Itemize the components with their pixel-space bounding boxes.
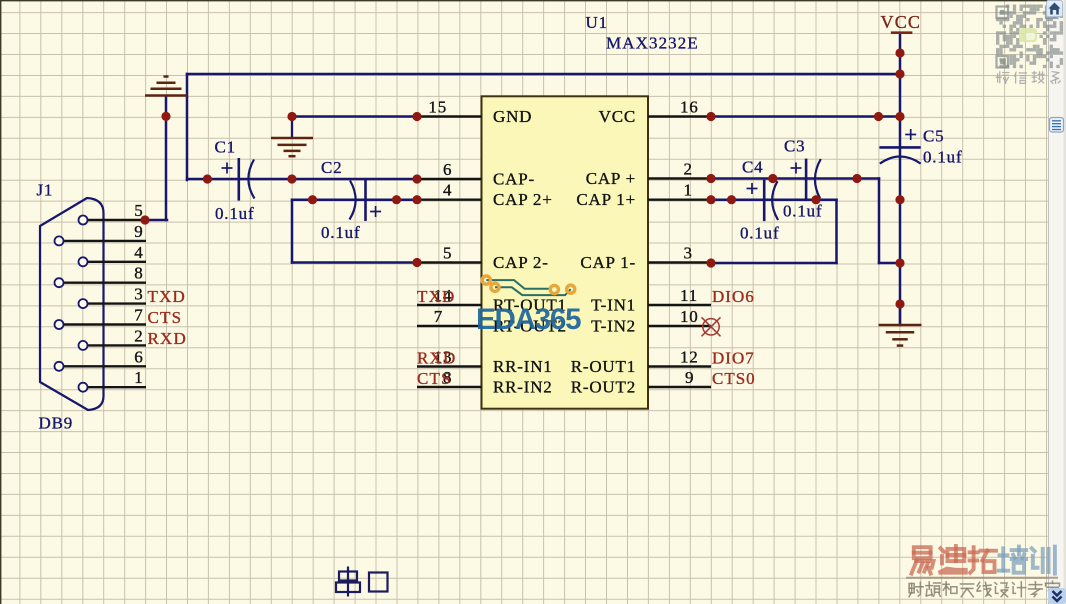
svg-text:EDA365: EDA365 bbox=[476, 303, 581, 336]
svg-text:0.1uf: 0.1uf bbox=[783, 202, 822, 221]
wire row to U1 pin 5 (CAP 2-) bbox=[292, 261, 417, 264]
svg-text:7: 7 bbox=[434, 307, 443, 326]
junction (166,116.4) bbox=[161, 112, 170, 121]
svg-text:2: 2 bbox=[134, 326, 143, 345]
wire U1 pin 2 through C3 to corner bbox=[711, 177, 879, 180]
svg-text:C4: C4 bbox=[742, 158, 763, 177]
connector J1 DB9 outline bbox=[40, 198, 104, 410]
wire corner down from pin2 row bbox=[878, 179, 881, 264]
wire GND pin row to U1 pin 15 bbox=[292, 115, 417, 118]
svg-text:0.1uf: 0.1uf bbox=[215, 204, 254, 223]
svg-text:10: 10 bbox=[680, 307, 699, 326]
svg-text:VCC: VCC bbox=[881, 12, 922, 32]
svg-text:T-IN1: T-IN1 bbox=[591, 296, 636, 315]
U1 pin 11 bbox=[648, 286, 711, 305]
U1 pin 8 bbox=[417, 368, 482, 387]
UI icon scroll-down chevron bbox=[1048, 588, 1066, 604]
junction (711,263) bbox=[706, 258, 715, 267]
capacitor C3 bbox=[791, 159, 821, 200]
UI scrollbar strip right bbox=[1049, 0, 1066, 604]
junction (900,263) bbox=[895, 258, 904, 267]
svg-text:1: 1 bbox=[134, 368, 143, 387]
svg-text:16: 16 bbox=[680, 98, 699, 117]
svg-text:6: 6 bbox=[134, 347, 143, 366]
U1 pin 15 bbox=[417, 98, 482, 117]
no-connect marker U1 pin 10 bbox=[702, 317, 721, 336]
J1 pin 1 bbox=[79, 368, 147, 392]
U1 pin 13 bbox=[417, 348, 482, 367]
junction (711,199.7) bbox=[706, 195, 715, 204]
U1 pin 12 bbox=[648, 348, 711, 367]
junction (900,304) bbox=[895, 299, 904, 308]
J1 pin 4 bbox=[79, 243, 147, 267]
junction (900,116.5) bbox=[895, 112, 904, 121]
svg-text:3: 3 bbox=[134, 285, 143, 304]
capacitor C1 bbox=[222, 158, 255, 201]
J1 pin 7 bbox=[55, 306, 147, 330]
svg-text:8: 8 bbox=[134, 264, 143, 283]
svg-text:DB9: DB9 bbox=[39, 414, 74, 433]
U1 pin 6 bbox=[417, 160, 482, 179]
junction (291.9,179) bbox=[287, 174, 296, 183]
svg-text:12: 12 bbox=[680, 348, 699, 367]
junction (857,178.5) bbox=[852, 174, 861, 183]
ground bottom right bbox=[879, 304, 922, 346]
svg-text:RR-IN2: RR-IN2 bbox=[493, 378, 553, 397]
junction (417,116.5) bbox=[412, 112, 421, 121]
junction (900,74) bbox=[895, 69, 904, 78]
op-amp/IC U1 MAX3232E body bbox=[482, 96, 649, 408]
capacitor C4 bbox=[747, 180, 779, 221]
U1 pin 16 bbox=[648, 98, 711, 117]
U1 pin 10 bbox=[648, 307, 711, 326]
svg-text:4: 4 bbox=[443, 181, 452, 200]
svg-text:C5: C5 bbox=[923, 127, 944, 146]
junction (816,199.7) bbox=[811, 195, 820, 204]
U1 pin 7 bbox=[417, 307, 482, 326]
capacitor C2 bbox=[350, 179, 382, 221]
svg-text:CAP +: CAP + bbox=[586, 169, 636, 188]
wire VCC vertical through C5 to ground bbox=[899, 33, 902, 325]
junction (711,178.5) bbox=[706, 174, 715, 183]
svg-text:RXD: RXD bbox=[417, 349, 457, 368]
svg-text:C3: C3 bbox=[784, 137, 805, 156]
svg-text:1: 1 bbox=[684, 181, 693, 200]
svg-text:GND: GND bbox=[493, 107, 532, 126]
ground (earth) top-left bbox=[145, 77, 187, 96]
svg-text:CAP 1-: CAP 1- bbox=[580, 253, 636, 272]
UI icon list/reader bbox=[1050, 118, 1064, 133]
junction (145,220) bbox=[140, 215, 149, 224]
wire to ground column bbox=[879, 262, 900, 265]
J1 pin 2 bbox=[79, 326, 147, 350]
UI icon back-to-top (house) bbox=[1047, 1, 1063, 17]
svg-text:VCC: VCC bbox=[599, 107, 636, 126]
junction (878.5,116.5) bbox=[874, 112, 883, 121]
watermark logo 易迪拓培训 bbox=[911, 547, 933, 573]
junction (396.5,199.7) bbox=[392, 195, 401, 204]
svg-text:0.1uf: 0.1uf bbox=[923, 148, 962, 167]
svg-text:9: 9 bbox=[134, 222, 143, 241]
svg-text:C1: C1 bbox=[215, 138, 236, 157]
svg-text:0.1uf: 0.1uf bbox=[740, 224, 779, 243]
svg-text:DIO7: DIO7 bbox=[712, 349, 755, 368]
svg-text:0.1uf: 0.1uf bbox=[321, 223, 360, 242]
junction (900,199.7) bbox=[895, 195, 904, 204]
U1 pin 5 bbox=[417, 244, 482, 263]
svg-text:R-OUT1: R-OUT1 bbox=[571, 357, 636, 376]
J1 pin 3 bbox=[79, 285, 147, 309]
junction (772.8,178.5) bbox=[768, 174, 777, 183]
J1 pin 8 bbox=[55, 264, 147, 288]
junction (417,179) bbox=[412, 174, 421, 183]
svg-text:CAP 1+: CAP 1+ bbox=[576, 190, 636, 209]
watermark EDA365 logo traces bbox=[486, 280, 570, 295]
junction (731.5,199.7) bbox=[727, 195, 736, 204]
U1 pin 2 bbox=[648, 160, 711, 179]
junction (417,262.5) bbox=[412, 258, 421, 267]
watermark text 射频和天线设计专家 bbox=[909, 582, 923, 596]
wire C2 row to U1 pin 4 bbox=[292, 198, 417, 201]
U1 pin 14 bbox=[417, 286, 482, 305]
wire U1 pin 3 row bbox=[711, 262, 837, 265]
capacitor C5 bbox=[879, 129, 920, 164]
J1 pin 6 bbox=[55, 347, 147, 371]
junction (207.4,179) bbox=[203, 174, 212, 183]
svg-text:4: 4 bbox=[134, 243, 143, 262]
junction (417,199.7) bbox=[412, 195, 421, 204]
junction (312.5,199.7) bbox=[308, 195, 317, 204]
wire ground stem to J1 pin 5 row bbox=[165, 96, 168, 220]
U1 pin 1 bbox=[648, 181, 711, 200]
J1 pin 5 bbox=[79, 201, 147, 225]
wire VCC top rail bbox=[187, 73, 900, 76]
svg-text:2: 2 bbox=[684, 160, 693, 179]
svg-text:7: 7 bbox=[134, 306, 143, 325]
svg-text:U1: U1 bbox=[586, 13, 608, 32]
U1 pin 3 bbox=[648, 244, 711, 263]
watermark QR code bbox=[996, 5, 1063, 69]
junction (292,116.5) bbox=[287, 112, 296, 121]
svg-text:MAX3232E: MAX3232E bbox=[606, 34, 699, 53]
junction (900,53) bbox=[895, 48, 904, 57]
svg-text:TXD: TXD bbox=[417, 287, 456, 306]
wire C2 left vertical bbox=[291, 200, 294, 263]
svg-text:15: 15 bbox=[428, 98, 447, 117]
svg-text:3: 3 bbox=[684, 244, 693, 263]
svg-text:11: 11 bbox=[680, 286, 698, 305]
svg-text:9: 9 bbox=[685, 368, 694, 387]
wire left vertical from top rail to C1 row bbox=[186, 74, 189, 180]
watermark text 微信联系 (WeChat contact) bbox=[996, 72, 1009, 83]
J1 pin 9 bbox=[55, 222, 147, 246]
svg-text:RXD: RXD bbox=[148, 329, 188, 348]
svg-text:CTS: CTS bbox=[148, 308, 183, 327]
svg-text:6: 6 bbox=[443, 160, 452, 179]
svg-text:TXD: TXD bbox=[148, 287, 187, 306]
power symbol VCC bbox=[881, 12, 922, 33]
U1 pin 4 bbox=[417, 181, 482, 200]
svg-text:CAP-: CAP- bbox=[493, 170, 535, 189]
svg-text:5: 5 bbox=[443, 244, 452, 263]
wire U1 pin 1 through C4 bbox=[711, 198, 837, 201]
wire U1 pin 16 to VCC line bbox=[711, 115, 900, 118]
svg-text:T-IN2: T-IN2 bbox=[591, 317, 636, 336]
svg-text:CAP 2+: CAP 2+ bbox=[493, 190, 553, 209]
title text 串口 (serial port) bbox=[336, 567, 388, 597]
svg-text:C2: C2 bbox=[321, 158, 342, 177]
U1 pin 9 bbox=[648, 368, 711, 387]
ground near U1 GND pin bbox=[271, 117, 313, 157]
wire J1 pin 5 to vertical bbox=[145, 219, 167, 222]
junction (711,116.5) bbox=[706, 112, 715, 121]
svg-text:RR-IN1: RR-IN1 bbox=[493, 357, 553, 376]
wire C1 row to U1 pin 6 bbox=[187, 178, 417, 181]
svg-text:CTS: CTS bbox=[417, 369, 452, 388]
svg-text:CAP 2-: CAP 2- bbox=[493, 253, 549, 272]
svg-text:R-OUT2: R-OUT2 bbox=[571, 378, 636, 397]
svg-text:CTS0: CTS0 bbox=[712, 369, 756, 388]
svg-text:J1: J1 bbox=[37, 181, 54, 200]
svg-text:DIO6: DIO6 bbox=[712, 287, 755, 306]
wire C4 branch vertical bbox=[835, 200, 838, 263]
